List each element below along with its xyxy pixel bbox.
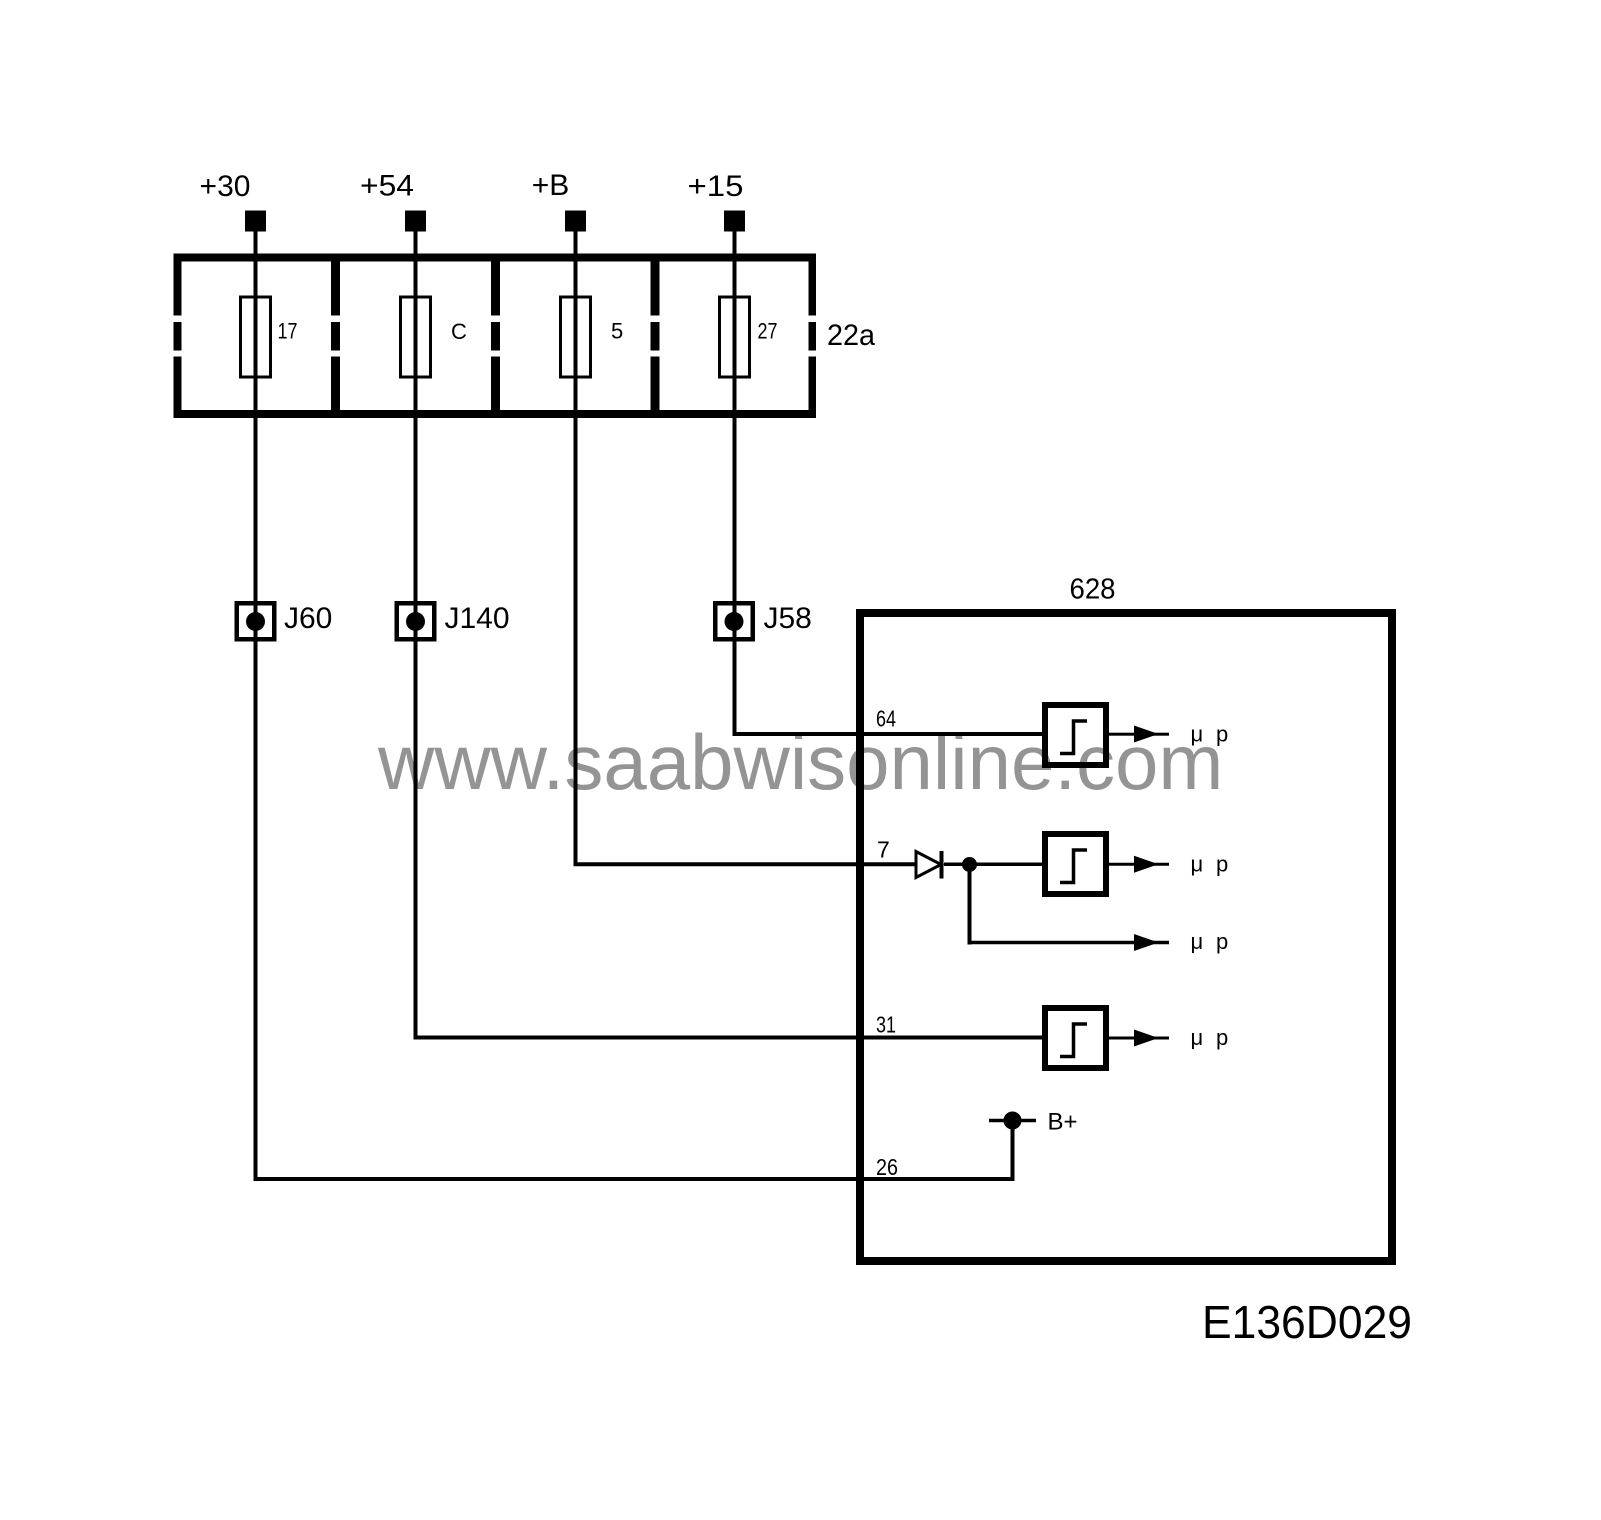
wire 26 up to B+ [1011, 1120, 1015, 1181]
wire 64 horizontal [733, 732, 1046, 736]
wire output 4 [1106, 1037, 1169, 1040]
diode cathode bar [940, 851, 944, 879]
fuse 5 [561, 297, 591, 377]
arrow 4 [1134, 1030, 1159, 1047]
svg-text:+B: +B [532, 169, 570, 202]
svg-text:J58: J58 [764, 602, 812, 635]
wire junction down [968, 865, 972, 945]
svg-text:+30: +30 [200, 170, 251, 203]
fuse box divider 3 (dashed) [651, 258, 660, 316]
arrow 1 [1134, 726, 1159, 743]
junction node [962, 857, 977, 872]
svg-text:27: 27 [758, 319, 778, 344]
svg-text:C: C [451, 319, 467, 344]
control unit box 628 [860, 613, 1392, 1261]
fuse box 22a outline left (dashed) [174, 254, 182, 316]
terminal square +B [565, 211, 586, 232]
wire +B vertical [574, 231, 578, 866]
svg-text:5: 5 [611, 319, 623, 344]
wire +15 vertical [733, 231, 737, 736]
schmitt trigger 3 step symbol [1060, 1024, 1087, 1057]
wire output 2 [1106, 863, 1169, 866]
connector J140 box [397, 603, 435, 639]
schmitt trigger 1 step symbol [1060, 721, 1087, 754]
connector J58 dot [725, 612, 744, 631]
fuse box divider 1 (dashed) [331, 258, 340, 316]
fuse 27 [720, 297, 750, 377]
svg-text:31: 31 [876, 1012, 896, 1038]
schmitt trigger 2 box [1045, 834, 1106, 894]
terminal square +15 [724, 211, 745, 232]
svg-text:p: p [1216, 929, 1228, 954]
terminal square +54 [405, 211, 426, 232]
svg-text:J140: J140 [445, 602, 510, 635]
wire branch horizontal [968, 941, 1170, 945]
wire 26 horizontal [254, 1177, 1015, 1181]
svg-text:p: p [1216, 852, 1228, 877]
fuse box 22a outline right (dashed) [809, 254, 817, 316]
svg-text:17: 17 [278, 319, 298, 344]
svg-text:22a: 22a [827, 319, 875, 352]
svg-text:p: p [1216, 722, 1228, 747]
svg-text:628: 628 [1070, 574, 1116, 606]
fuse box 22a outline bottom [174, 410, 817, 418]
svg-text:p: p [1216, 1025, 1228, 1050]
svg-text:B+: B+ [1048, 1109, 1078, 1136]
B+ stub line [989, 1119, 1036, 1123]
wire output 1 [1106, 733, 1169, 736]
connector J60 box [237, 603, 275, 639]
svg-text:E136D029: E136D029 [1202, 1296, 1412, 1348]
arrow 3 [1134, 934, 1159, 951]
svg-text:μ: μ [1191, 722, 1204, 747]
svg-text:7: 7 [877, 837, 890, 863]
svg-text:μ: μ [1191, 1025, 1204, 1050]
svg-text:+54: +54 [360, 170, 414, 203]
terminal square +30 [245, 211, 266, 232]
fuse box divider 2 (dashed) [491, 258, 500, 316]
connector J58 box [715, 603, 753, 639]
wire diode to trigger 2 [944, 863, 1045, 867]
connector J140 dot [406, 612, 425, 631]
node B+ dot [1004, 1112, 1022, 1130]
wire +30 vertical [254, 231, 258, 1181]
schmitt trigger 3 box [1045, 1008, 1106, 1068]
fuse C [401, 297, 431, 377]
svg-text:μ: μ [1191, 929, 1204, 954]
svg-text:64: 64 [876, 706, 896, 732]
wire 7 horizontal [574, 862, 917, 866]
svg-text:J60: J60 [284, 602, 332, 635]
diode [916, 852, 941, 878]
schmitt trigger 1 box [1045, 705, 1106, 765]
fuse box 22a outline top [174, 254, 817, 262]
svg-text:μ: μ [1191, 852, 1204, 877]
svg-text:26: 26 [876, 1154, 898, 1180]
connector J60 dot [246, 612, 265, 631]
arrow 2 [1134, 856, 1159, 873]
wire 31 horizontal [414, 1036, 1046, 1040]
svg-text:+15: +15 [688, 170, 744, 203]
wire +54 vertical [414, 231, 418, 1040]
fuse 17 [241, 297, 271, 377]
schmitt trigger 2 step symbol [1060, 850, 1087, 883]
